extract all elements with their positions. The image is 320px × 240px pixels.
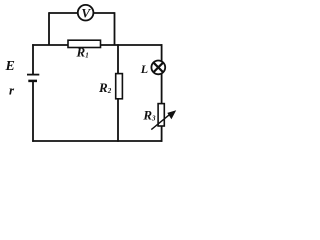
wire bottom horizontal bbox=[32, 140, 162, 142]
wire main top horizontal bbox=[32, 44, 162, 46]
resistor R2 bbox=[116, 74, 123, 99]
wire voltmeter loop top bbox=[49, 12, 115, 14]
wire voltmeter loop left vertical bbox=[48, 12, 50, 45]
svg-text:R: R bbox=[142, 108, 152, 123]
resistor R3 (rheostat body) bbox=[158, 104, 164, 126]
svg-text:E: E bbox=[5, 59, 15, 74]
lamp L (circle with X) bbox=[151, 61, 165, 75]
svg-text:2: 2 bbox=[107, 87, 112, 95]
wire left vertical lower bbox=[32, 81, 34, 142]
svg-text:R: R bbox=[98, 80, 108, 95]
svg-text:L: L bbox=[140, 62, 148, 76]
svg-text:V: V bbox=[81, 5, 91, 20]
svg-text:r: r bbox=[9, 82, 15, 97]
wire voltmeter loop right vertical bbox=[114, 12, 116, 45]
wire left vertical upper bbox=[32, 44, 34, 74]
resistor R1 bbox=[68, 40, 101, 47]
voltmeter U (circle) bbox=[78, 5, 94, 21]
svg-text:3: 3 bbox=[151, 115, 156, 123]
resistor R3 arrow bbox=[151, 110, 176, 129]
wire R2 branch vertical bbox=[117, 44, 119, 142]
battery E r (cell plates) bbox=[27, 75, 39, 81]
svg-text:R: R bbox=[76, 44, 86, 59]
wire right vertical bbox=[161, 44, 163, 142]
svg-text:1: 1 bbox=[85, 51, 89, 59]
